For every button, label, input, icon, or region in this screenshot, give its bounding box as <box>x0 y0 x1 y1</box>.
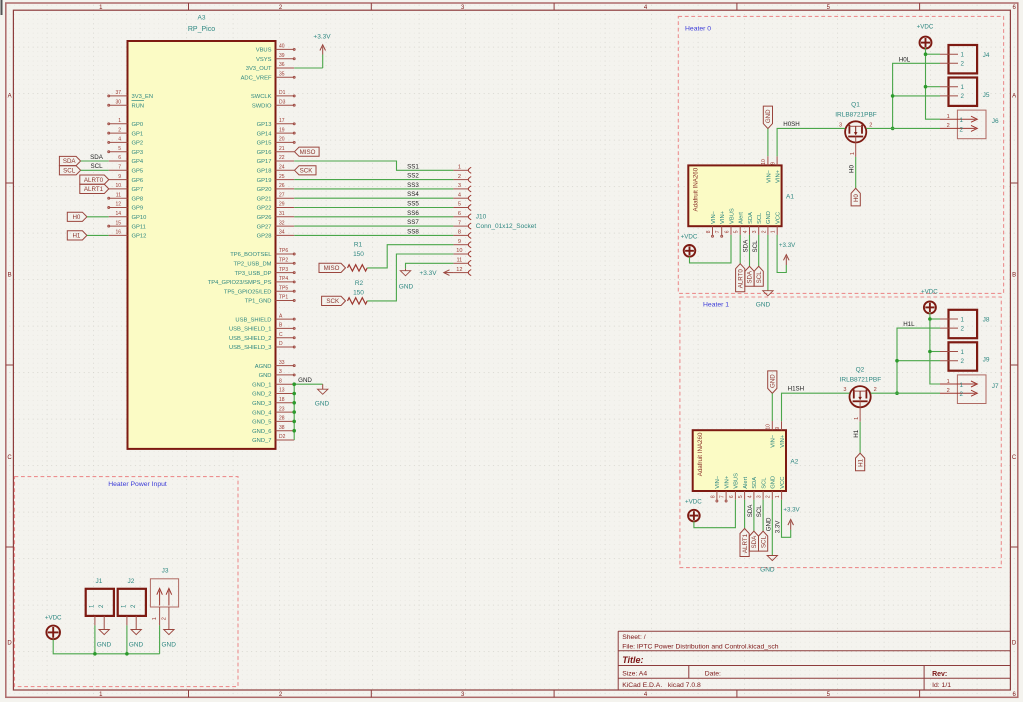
svg-text:H0: H0 <box>72 214 80 221</box>
pin 34 GP28 (right) <box>276 234 295 236</box>
svg-text:Date:: Date: <box>705 671 721 678</box>
wire SS6 <box>294 216 453 218</box>
pin A USB_SHIELD (right) <box>276 318 295 320</box>
svg-text:C: C <box>279 332 283 338</box>
pin TP5 TP5_GPIO25/LED (right) <box>276 290 295 292</box>
svg-text:GP22: GP22 <box>257 206 272 212</box>
svg-text:2: 2 <box>761 230 767 233</box>
svg-text:7: 7 <box>715 230 721 233</box>
svg-text:TP5: TP5 <box>279 285 288 291</box>
pin TP3 TP3_USB_DP (right) <box>276 272 295 274</box>
svg-text:2: 2 <box>162 617 168 620</box>
svg-text:GP16: GP16 <box>257 150 272 156</box>
svg-text:3V3_OUT: 3V3_OUT <box>246 66 272 72</box>
svg-text:TP4_GPIO23/SMPS_PS: TP4_GPIO23/SMPS_PS <box>208 280 272 286</box>
svg-text:Alert: Alert <box>743 476 749 488</box>
svg-text:150: 150 <box>353 251 364 258</box>
global label MISO at R1 <box>319 263 346 272</box>
svg-text:VBUS: VBUS <box>256 48 272 54</box>
svg-text:9: 9 <box>771 162 777 165</box>
global label SDA <box>749 531 758 551</box>
pin D2 GND_7 (right) <box>276 439 295 441</box>
svg-text:IRLB8721PBF: IRLB8721PBF <box>835 112 877 119</box>
wire H0L <box>893 63 940 128</box>
svg-text:+3.3V: +3.3V <box>419 270 437 277</box>
J10 pin 9 <box>453 244 468 246</box>
connector J1 <box>86 589 114 616</box>
wire GND pin <box>771 500 773 556</box>
wire H0SH <box>777 128 845 156</box>
pin 15 GP11 (left) <box>109 225 128 227</box>
svg-text:SCL: SCL <box>756 271 763 284</box>
pin 38 GND_6 (right) <box>276 430 295 432</box>
svg-text:11: 11 <box>456 258 462 264</box>
pin 20 GP15 (right) <box>276 141 295 143</box>
A2 pin 8 VIN− <box>716 491 718 500</box>
pin 10 GP7 (left) <box>109 188 128 190</box>
svg-text:D: D <box>7 641 12 647</box>
svg-text:VIN−: VIN− <box>715 475 721 489</box>
svg-text:1: 1 <box>961 316 965 323</box>
svg-text:Q2: Q2 <box>856 366 865 373</box>
svg-text:8: 8 <box>710 495 716 498</box>
svg-text:J6: J6 <box>992 118 999 125</box>
svg-text:GP9: GP9 <box>132 206 144 212</box>
svg-text:1: 1 <box>458 165 461 171</box>
svg-text:GND: GND <box>399 284 414 291</box>
svg-text:2: 2 <box>458 174 461 180</box>
resistor R1 <box>348 265 368 271</box>
svg-text:H0: H0 <box>853 194 860 202</box>
ic A3 RP_Pico body <box>128 41 276 449</box>
svg-text:9: 9 <box>118 174 121 180</box>
svg-text:SCL: SCL <box>90 163 103 170</box>
A1 pin 6 VBUS <box>730 226 732 235</box>
J10 pin 10 <box>453 253 468 255</box>
svg-text:ADC_VREF: ADC_VREF <box>241 76 272 82</box>
svg-text:D3: D3 <box>279 99 286 105</box>
svg-text:GP21: GP21 <box>257 196 272 202</box>
global label SCL <box>759 531 768 551</box>
wire +VDC rail <box>926 48 941 119</box>
svg-text:28: 28 <box>279 416 285 422</box>
svg-text:GND: GND <box>756 302 771 309</box>
global label ALRT1 <box>740 529 749 557</box>
svg-text:A3: A3 <box>198 15 206 22</box>
svg-text:GND: GND <box>765 109 772 123</box>
svg-text:8: 8 <box>706 230 712 233</box>
svg-text:GP26: GP26 <box>257 215 272 221</box>
svg-text:Sheet: /: Sheet: / <box>622 634 646 641</box>
wire Q gate down <box>855 157 857 188</box>
pin 36 3V3_OUT (right) <box>276 67 295 69</box>
pin 6 GP4 (left) <box>109 160 128 162</box>
svg-text:2: 2 <box>947 123 950 129</box>
svg-text:GP19: GP19 <box>257 178 272 184</box>
pin 40 VBUS (right) <box>276 48 295 50</box>
svg-text:30: 30 <box>115 99 121 105</box>
svg-text:Size: A4: Size: A4 <box>622 671 647 678</box>
svg-text:3: 3 <box>458 183 461 189</box>
pin 22 GP17 (right) <box>276 160 295 162</box>
svg-text:TP3: TP3 <box>279 267 288 273</box>
svg-text:A2: A2 <box>790 459 798 466</box>
svg-text:TP1: TP1 <box>279 295 288 301</box>
A1 pin 4 SDA <box>749 226 751 235</box>
svg-text:SS8: SS8 <box>407 228 419 235</box>
svg-text:GND: GND <box>770 374 777 388</box>
pin TP1 TP1_GND (right) <box>276 300 295 302</box>
svg-text:SDA: SDA <box>747 504 754 518</box>
global label SDA <box>745 266 754 286</box>
wire Q gate down <box>859 422 861 453</box>
svg-text:GP5: GP5 <box>132 169 144 175</box>
junction <box>928 317 932 321</box>
title block <box>618 630 1010 632</box>
wire Q drain to rail <box>866 127 940 129</box>
global label H0 <box>851 188 860 206</box>
J10 pin 5 <box>453 207 468 209</box>
svg-text:+VDC: +VDC <box>45 615 62 622</box>
svg-text:GP3: GP3 <box>132 150 144 156</box>
global label ALRT0 <box>736 264 745 292</box>
wire SDA <box>753 500 755 531</box>
A2 pin 7 VIN+ <box>725 491 727 500</box>
svg-text:TP2_USB_DM: TP2_USB_DM <box>233 262 271 268</box>
pin 25 GP19 (right) <box>276 179 295 181</box>
svg-text:D: D <box>1012 641 1017 647</box>
svg-text:7: 7 <box>118 165 121 171</box>
svg-text:+3.3V: +3.3V <box>779 242 796 249</box>
svg-text:SS4: SS4 <box>407 191 419 198</box>
svg-text:GND: GND <box>766 211 772 224</box>
svg-text:40: 40 <box>279 44 285 50</box>
connector J4 <box>949 45 978 73</box>
svg-text:VIN+: VIN+ <box>780 434 786 448</box>
svg-text:ALRT1: ALRT1 <box>84 186 104 193</box>
svg-text:10: 10 <box>456 248 462 254</box>
svg-text:4: 4 <box>118 137 121 143</box>
svg-text:KiCad E.D.A. kicad 7.0.8: KiCad E.D.A. kicad 7.0.8 <box>622 682 701 689</box>
svg-text:VIN+: VIN+ <box>724 475 730 489</box>
junction <box>924 52 928 56</box>
svg-text:39: 39 <box>279 53 285 59</box>
svg-text:B: B <box>8 273 12 279</box>
power +VDC heater 0 <box>920 37 932 49</box>
svg-text:16: 16 <box>115 230 121 236</box>
wire R1 to J10-9 <box>367 245 453 268</box>
wire H1L <box>897 328 940 393</box>
svg-text:5: 5 <box>738 495 744 498</box>
sheet box Heater 1 <box>680 297 1001 568</box>
wire +VDC to VBUS <box>694 500 736 528</box>
svg-text:SWDIO: SWDIO <box>252 103 272 109</box>
A1 pin 5 Alert <box>739 226 741 235</box>
svg-text:5: 5 <box>118 146 121 152</box>
junction J1 <box>93 652 97 656</box>
svg-text:H1L: H1L <box>903 321 915 328</box>
svg-text:12: 12 <box>456 267 462 273</box>
connector J6 <box>957 110 986 139</box>
J3 pin 1 wire <box>159 607 161 625</box>
svg-text:2: 2 <box>961 358 965 365</box>
A1 pin 10 VIN- <box>767 156 769 165</box>
svg-text:SS1: SS1 <box>407 163 419 170</box>
pin D1 SWCLK (right) <box>276 95 295 97</box>
J10 pin 3 <box>453 188 468 190</box>
svg-text:33: 33 <box>279 360 285 366</box>
svg-text:GP15: GP15 <box>257 141 272 147</box>
power +VDC at A2 <box>688 510 700 522</box>
pin 19 GP14 (right) <box>276 132 295 134</box>
svg-text:Adafruit INA260: Adafruit INA260 <box>693 167 700 211</box>
svg-text:1: 1 <box>961 349 965 356</box>
svg-text:1: 1 <box>775 495 781 498</box>
svg-text:1: 1 <box>961 84 965 91</box>
global label H0 at GP10 <box>67 212 87 221</box>
J3 pin 2 to ground <box>168 607 170 629</box>
svg-text:35: 35 <box>279 72 285 78</box>
pin 32 GP27 (right) <box>276 225 295 227</box>
svg-text:18: 18 <box>279 397 285 403</box>
pin 21 GP16 (right) <box>276 151 295 153</box>
svg-text:6: 6 <box>118 155 121 161</box>
svg-text:26: 26 <box>279 183 285 189</box>
svg-text:Conn_01x12_Socket: Conn_01x12_Socket <box>476 223 537 230</box>
svg-text:19: 19 <box>279 127 285 133</box>
svg-text:GND: GND <box>760 566 775 573</box>
svg-text:GND_2: GND_2 <box>252 392 271 398</box>
svg-text:J7: J7 <box>992 383 999 390</box>
svg-text:SCL: SCL <box>757 212 763 224</box>
svg-text:GND_4: GND_4 <box>252 410 272 416</box>
wire SS8 <box>294 234 453 236</box>
svg-text:GND_6: GND_6 <box>252 429 271 435</box>
svg-text:MISO: MISO <box>300 149 316 156</box>
svg-text:D: D <box>279 341 283 347</box>
wire +VDC bus <box>53 639 159 653</box>
svg-text:VCC: VCC <box>780 477 786 489</box>
wire Alert to ALRT1 <box>744 500 746 529</box>
pin 1 GP0 (left) <box>109 123 128 125</box>
svg-text:USB_SHIELD_2: USB_SHIELD_2 <box>229 336 272 342</box>
svg-text:H1: H1 <box>857 458 864 466</box>
global label ALRT0 at GP6 <box>80 175 109 184</box>
svg-text:A1: A1 <box>786 194 794 201</box>
svg-text:11: 11 <box>116 192 121 198</box>
svg-text:3: 3 <box>839 122 842 128</box>
svg-text:15: 15 <box>115 220 121 226</box>
svg-text:GND: GND <box>161 641 176 648</box>
svg-text:J1: J1 <box>95 578 102 585</box>
svg-text:21: 21 <box>279 146 285 152</box>
svg-text:+3.3V: +3.3V <box>313 34 331 41</box>
svg-text:1: 1 <box>850 152 856 155</box>
svg-text:29: 29 <box>279 202 285 208</box>
svg-text:22: 22 <box>279 155 285 161</box>
A1 pin 3 SCL <box>758 226 760 235</box>
power +3.3V at A2 <box>790 521 792 530</box>
svg-text:4: 4 <box>747 495 753 498</box>
svg-text:Q1: Q1 <box>851 102 860 109</box>
pin 37 3V3_EN (left) <box>109 95 128 97</box>
svg-text:TP5_GPIO25/LED: TP5_GPIO25/LED <box>224 289 272 295</box>
svg-text:H0: H0 <box>849 164 856 172</box>
svg-text:37: 37 <box>115 90 121 96</box>
ground symbol at chip <box>322 384 324 389</box>
svg-text:GND_5: GND_5 <box>252 420 271 426</box>
global label SCK at R2 <box>322 296 346 305</box>
svg-text:D2: D2 <box>279 434 286 440</box>
pin TP6 TP6_BOOTSEL (right) <box>276 253 295 255</box>
svg-text:GND_3: GND_3 <box>252 401 271 407</box>
svg-text:C: C <box>7 455 12 461</box>
svg-text:10: 10 <box>766 424 772 430</box>
svg-text:20: 20 <box>279 137 285 143</box>
pin 5 GP3 (left) <box>109 151 128 153</box>
svg-text:2: 2 <box>961 325 965 332</box>
svg-text:3: 3 <box>279 369 282 375</box>
svg-text:1: 1 <box>854 417 860 420</box>
transistor Q2 IRLB8721PBF <box>850 386 871 407</box>
ic A2 Adafruit INA260 body <box>693 430 786 491</box>
svg-text:25: 25 <box>279 174 285 180</box>
A2 pin 2 GND <box>771 491 773 500</box>
connector J7 <box>957 375 986 404</box>
connector J3 <box>150 579 178 607</box>
svg-text:5: 5 <box>458 202 461 208</box>
global label H1 <box>856 453 865 471</box>
svg-text:IRLB8721PBF: IRLB8721PBF <box>840 376 882 383</box>
frame column ticks <box>188 3 190 10</box>
svg-text:J4: J4 <box>983 52 990 59</box>
svg-text:GND: GND <box>315 401 330 408</box>
svg-text:24: 24 <box>279 165 285 171</box>
ground symbol at J3 <box>168 628 170 630</box>
svg-text:GP2: GP2 <box>132 141 144 147</box>
A2 pin 5 Alert <box>744 491 746 500</box>
svg-text:RUN: RUN <box>132 103 145 109</box>
svg-text:2: 2 <box>766 495 772 498</box>
J10 pin 12 <box>453 272 468 274</box>
svg-text:14: 14 <box>115 211 121 217</box>
pin 8 GND_1 (right) <box>276 383 295 385</box>
svg-text:SS5: SS5 <box>407 201 419 208</box>
svg-text:GP4: GP4 <box>132 159 144 165</box>
wire SS3 <box>294 188 453 190</box>
svg-text:GND: GND <box>298 377 312 384</box>
wire GND label to pin 10 <box>771 393 773 421</box>
svg-text:H0SH: H0SH <box>783 121 800 128</box>
wire SCL <box>762 500 764 531</box>
svg-text:GND: GND <box>129 641 144 648</box>
svg-text:GP27: GP27 <box>257 224 272 230</box>
svg-text:23: 23 <box>279 406 285 412</box>
svg-text:ALRT0: ALRT0 <box>84 177 104 184</box>
svg-text:150: 150 <box>353 289 364 296</box>
J2 pin 1 wire <box>126 616 128 626</box>
svg-text:34: 34 <box>279 230 285 236</box>
pin 28 GND_5 (right) <box>276 420 295 422</box>
wire SS7 <box>294 225 453 227</box>
pin 26 GP20 (right) <box>276 188 295 190</box>
svg-text:+VDC: +VDC <box>685 498 702 505</box>
pin B USB_SHIELD_1 (right) <box>276 327 295 329</box>
svg-text:TP1_GND: TP1_GND <box>245 299 272 305</box>
svg-text:SDA: SDA <box>747 270 754 284</box>
svg-text:+VDC: +VDC <box>917 24 934 31</box>
svg-text:2: 2 <box>961 61 965 68</box>
svg-text:27: 27 <box>279 192 285 198</box>
svg-text:SS7: SS7 <box>407 219 419 226</box>
wire GND bus at chip <box>293 384 295 440</box>
svg-text:SS2: SS2 <box>407 173 419 180</box>
svg-text:Heater 1: Heater 1 <box>703 302 729 309</box>
A1 pin 1 VCC <box>776 226 778 235</box>
wire H1SH <box>782 393 850 421</box>
svg-text:GP10: GP10 <box>132 215 147 221</box>
svg-text:GND: GND <box>771 476 777 489</box>
pin 11 GP8 (left) <box>109 197 128 199</box>
svg-text:VIN−: VIN− <box>711 210 717 224</box>
pin 23 GND_4 (right) <box>276 411 295 413</box>
pin 35 ADC_VREF (right) <box>276 76 295 78</box>
J10 pin 11 <box>453 262 468 264</box>
svg-text:B: B <box>1012 273 1016 279</box>
svg-text:SCL: SCL <box>760 536 767 549</box>
A2 pin 1 VCC <box>781 491 783 500</box>
svg-text:7: 7 <box>720 495 726 498</box>
svg-text:9: 9 <box>458 239 461 245</box>
svg-text:SDA: SDA <box>751 535 758 549</box>
svg-text:3.3V: 3.3V <box>775 520 782 534</box>
svg-text:GND_7: GND_7 <box>252 438 271 444</box>
global label SDA at GP4 <box>59 156 80 165</box>
svg-text:SDA: SDA <box>752 477 758 489</box>
svg-text:6: 6 <box>724 230 730 233</box>
svg-text:D1: D1 <box>279 90 286 96</box>
svg-text:GP17: GP17 <box>257 159 272 165</box>
A1 pin 9 VIN+ <box>776 156 778 165</box>
pin 2 GP1 (left) <box>109 132 128 134</box>
pin TP2 TP2_USB_DM (right) <box>276 262 295 264</box>
svg-text:TP2: TP2 <box>279 258 288 264</box>
pin 39 VSYS (right) <box>276 58 295 60</box>
svg-text:SCL: SCL <box>752 240 759 253</box>
svg-text:1: 1 <box>118 118 121 124</box>
svg-text:GP0: GP0 <box>132 122 144 128</box>
svg-text:1: 1 <box>960 117 964 124</box>
svg-text:9: 9 <box>775 427 781 430</box>
svg-text:GP8: GP8 <box>132 196 144 202</box>
svg-text:+VDC: +VDC <box>681 234 698 241</box>
svg-text:Alert: Alert <box>739 212 745 224</box>
ground symbol at J10-11 <box>405 269 407 271</box>
J2 pin 2 to ground <box>135 616 137 630</box>
svg-text:2: 2 <box>118 127 121 133</box>
svg-text:6: 6 <box>729 495 735 498</box>
svg-text:TP4: TP4 <box>279 276 288 282</box>
svg-text:RP_Pico: RP_Pico <box>188 26 215 33</box>
sheet box Heater Power Input <box>15 477 239 687</box>
svg-text:GP7: GP7 <box>132 187 144 193</box>
svg-text:GP14: GP14 <box>257 131 273 137</box>
svg-text:H0L: H0L <box>899 56 911 63</box>
pin 27 GP21 (right) <box>276 197 295 199</box>
ground symbol at J2 <box>135 628 137 630</box>
wire SS1 GP17 to J10-1 <box>294 161 453 170</box>
ground symbol A1 <box>767 290 769 292</box>
